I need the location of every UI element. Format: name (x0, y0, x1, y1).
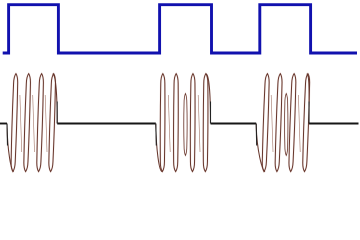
wire: carrier baseline segment 2 (57, 123, 156, 125)
carrier cycle oval 2 of burst 2 (173, 74, 178, 172)
carrier partial mid-loop of burst 3 (285, 94, 288, 156)
wire: burst 3 end dark stub (308, 102, 310, 124)
wire: burst 1 start connector (7, 124, 14, 172)
wire: burst 3 start dark stub (255, 124, 258, 146)
wire: burst 1 start dark stub (6, 124, 9, 146)
wire: inter-cycle link 1-2 burst 3 (271, 95, 273, 152)
carrier cycle oval 4 of burst 3 (302, 74, 310, 172)
carrier cycle oval 1 of burst 1 (11, 74, 19, 172)
carrier cycle oval 3 of burst 1 (36, 74, 44, 172)
carrier cycle oval 2 of burst 3 (275, 74, 283, 172)
node: ASK carrier burst 3 (256, 74, 310, 172)
carrier cycle oval 2 of burst 1 (23, 74, 31, 172)
carrier cycle oval 1 of burst 3 (262, 74, 270, 172)
wire: burst 1 end dark stub (56, 102, 58, 124)
wire: inter-cycle link 3-4 burst 2 (198, 95, 200, 152)
wire: burst 2 start connector (156, 124, 162, 172)
wire: carrier baseline segment 1 (0, 123, 7, 125)
wire: inter-cycle link 2-3 burst 1 (33, 95, 35, 152)
carrier cycle oval 3 of burst 2 (190, 74, 195, 172)
wire: burst 1 end connector (53, 74, 58, 124)
carrier cycle oval 1 of burst 2 (160, 74, 165, 172)
carrier cycle oval 4 of burst 2 (203, 74, 208, 172)
carrier cycle oval 3 of burst 3 (288, 74, 296, 172)
wire: carrier baseline segment 4 (309, 123, 359, 125)
wire: carrier baseline segment 3 (211, 123, 257, 125)
wire: burst 3 start connector (256, 124, 265, 172)
wire: inter-cycle link 3-4 burst 1 (45, 95, 47, 152)
carrier cycle oval 4 of burst 1 (48, 74, 56, 172)
carrier partial mid-loop of burst 2 (184, 94, 187, 156)
wire: inter-cycle link 3-4 burst 3 (298, 95, 300, 152)
wire: burst 3 end connector (307, 74, 309, 124)
node: ASK carrier burst 2 (156, 74, 211, 172)
wire: burst 2 end connector (206, 74, 210, 124)
wire: burst 2 end dark stub (210, 102, 212, 124)
node: ASK carrier burst 1 (7, 74, 57, 172)
wire: burst 2 start dark stub (155, 124, 158, 146)
digital message signal (blue square wave) (3, 5, 357, 53)
wire: inter-cycle link 1-2 burst 2 (168, 95, 170, 152)
wire: inter-cycle link 1-2 burst 1 (20, 95, 22, 152)
